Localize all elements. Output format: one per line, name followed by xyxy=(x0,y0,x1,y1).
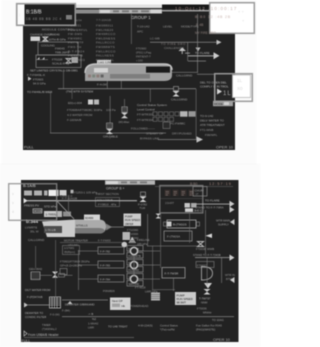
wire: faint top line P2 xyxy=(155,185,233,188)
panel P1 (upper DCS screenshot background) xyxy=(23,8,235,150)
red play arrow xyxy=(217,89,222,95)
right lower text block P1 xyxy=(200,114,225,127)
tile 2 (maroon) xyxy=(173,190,179,197)
svg-text:1L: 1L xyxy=(237,78,243,83)
junction diamond P2 right xyxy=(206,234,213,239)
down arrow xyxy=(196,48,201,52)
white value box xyxy=(31,37,41,42)
left rows with arrow xyxy=(28,77,32,81)
overlay box E (annotation with red tiles) xyxy=(160,186,203,213)
panel P1 top-right extension (dark strip behind clock) xyxy=(162,5,235,9)
small grey icon box xyxy=(72,57,79,63)
dark diamond xyxy=(204,283,212,289)
left stack of outlined boxes P2 xyxy=(127,246,143,287)
wire: vertical x=63 P1 xyxy=(62,71,65,89)
hatch box icon xyxy=(31,272,40,280)
button row P2 top-left xyxy=(24,191,32,196)
valve V6 red butterfly xyxy=(204,289,211,295)
wire: vertical x=72 P1 xyxy=(71,89,74,99)
bottom right cluster P1 xyxy=(131,127,218,141)
PUMP B bright boxes xyxy=(123,232,131,240)
wire: second line below TO FLARE xyxy=(188,60,206,63)
box C faint glyphs xyxy=(237,78,243,91)
right mid white text block xyxy=(200,81,229,89)
dark icon box xyxy=(163,122,170,129)
grey button under box C xyxy=(213,101,233,106)
menu bar P1 xyxy=(76,10,99,14)
hatch icon box xyxy=(151,293,160,301)
F-T-7W3R box xyxy=(162,268,185,279)
PUMP RUN SPEED white box 2 xyxy=(175,292,196,305)
faceplate inner dark display xyxy=(146,67,170,73)
wire: vertical under 7W3R box xyxy=(172,278,175,291)
outlined box 2 under box E xyxy=(164,231,192,241)
wire: main horizontal line P2 xyxy=(27,200,137,201)
valve (white butterfly, center line) xyxy=(106,129,113,134)
wire: vertical line x=197 P1 xyxy=(196,14,199,73)
wire: vertical line x=50 P1 xyxy=(49,92,52,133)
valve V1 (red butterfly) xyxy=(43,37,48,41)
overlay box D (left callout P2) xyxy=(9,184,57,221)
red tick xyxy=(71,190,74,194)
wire: mid horizontal line P1 xyxy=(58,87,196,90)
check valve D-shape xyxy=(202,267,213,281)
bottom right text block xyxy=(138,311,224,332)
wire: bottom horizontal line P1 xyxy=(50,132,166,135)
wire: vertical line x=187 P1 xyxy=(186,42,189,61)
overlay box A (grey bordered callout, top-left) xyxy=(18,5,75,25)
wire: long horizontal line under header P1 (arrow) xyxy=(150,41,217,44)
block outline FOLLOW-B xyxy=(96,198,120,207)
LED grey xyxy=(101,75,104,78)
wire: into box C xyxy=(197,73,215,76)
texts left-center P2 xyxy=(63,246,80,255)
wire: pill drop lines xyxy=(106,81,109,89)
svg-text:x: x xyxy=(12,201,14,205)
svg-text:4: 4 xyxy=(12,210,14,214)
wire: loop vertical x=152.5 xyxy=(151,246,154,290)
faceplate label (LAG) xyxy=(97,60,111,64)
wire: small arrow line bottom right xyxy=(158,138,197,141)
wire: long bottom horizontal line P2 xyxy=(62,315,234,318)
wire vertical x=221 xyxy=(220,258,223,283)
valve V4 (red butterfly P2) xyxy=(141,192,146,196)
wire: diagonal into vessel xyxy=(57,201,74,219)
box E inner line xyxy=(161,197,203,200)
svg-text:PRESS PV: PRESS PV xyxy=(24,204,39,208)
arrow head main line xyxy=(24,198,28,203)
tile 3 (maroon) xyxy=(181,190,187,197)
wire: vertical line x=131 P1 xyxy=(130,14,133,44)
wires vertical left P2 xyxy=(34,246,37,268)
1-TR55A light box xyxy=(44,211,62,217)
texts below xyxy=(127,228,139,240)
wire: vertical line x=110 P1 xyxy=(109,96,112,123)
outlined box under box E xyxy=(167,220,196,228)
indicator red cross xyxy=(179,48,187,52)
arrow into filter xyxy=(24,303,28,308)
box B faint glyphs xyxy=(238,9,245,23)
menu bar extension line P1 xyxy=(162,10,209,11)
vessel (light grey tank) xyxy=(42,220,75,238)
wire: horizontal line y=242 P2 xyxy=(60,241,122,244)
wire set center P2 xyxy=(146,214,149,246)
block outline B1 (cooling box) xyxy=(38,42,78,55)
valve V5 red butterfly xyxy=(52,272,58,278)
texts right of pill xyxy=(136,47,152,63)
wire: vertical x=205 P2 xyxy=(204,210,207,254)
menu bar P2 xyxy=(105,181,155,185)
LED green xyxy=(92,75,95,78)
tile 4 (maroon) xyxy=(189,190,195,197)
overlay box C (right-middle callout) xyxy=(215,74,253,102)
bright highlighted cell xyxy=(49,190,59,196)
wire: vertical to vessel xyxy=(67,196,70,215)
wire: vertical x=196 P1 xyxy=(195,89,198,139)
valve (white butterfly top right P2) xyxy=(198,242,204,247)
svg-text:X0: X0 xyxy=(237,86,243,91)
wire: hatch to valve line xyxy=(40,274,52,277)
svg-text:MODE: MODE xyxy=(34,209,42,213)
valve (white butterfly near box E) xyxy=(156,214,162,219)
LED red xyxy=(88,75,91,78)
svg-text:B:1B/B: B:1B/B xyxy=(26,10,42,16)
wire: vertical between pumps xyxy=(133,255,136,276)
wire vertical right low xyxy=(206,258,209,285)
panel P2 (lower DCS screenshot background) xyxy=(21,180,239,342)
top-right small outlined box P2 xyxy=(193,187,207,197)
wire: loop horizontal y=289.5 xyxy=(152,288,175,291)
red indicator circle xyxy=(122,242,128,248)
block outline B2 (scaler box) xyxy=(36,55,81,68)
faceplate pill P1 xyxy=(85,64,172,81)
arrow row right xyxy=(195,256,230,259)
tile 1 (maroon) xyxy=(165,190,171,197)
faceplate shading stripe xyxy=(110,74,150,79)
text column 2 P1 xyxy=(96,24,116,62)
PUMP RUN SPEED box (white) xyxy=(124,214,142,227)
box D faint glyphs xyxy=(12,192,14,214)
vessel dark inset xyxy=(44,226,62,233)
wire: vessel tail to pump box xyxy=(106,226,124,229)
hatch box icon on line xyxy=(107,123,113,128)
bottom right cluster P2 xyxy=(196,247,214,268)
pump circles column xyxy=(98,247,124,254)
SELECT OP white button xyxy=(110,298,131,311)
MODE box xyxy=(33,209,42,213)
box C inner white panel xyxy=(233,75,251,98)
valve V3 (red butterfly, right-center) xyxy=(174,87,179,91)
svg-text:1B 4B 8B BB 2C 4: 1B 4B 8B BB 2C 4 xyxy=(26,17,62,21)
svg-text:STD kPa: STD kPa xyxy=(44,205,56,209)
faceplate white cell xyxy=(94,68,108,73)
wires left-center P2 xyxy=(77,250,80,290)
svg-text:x: x xyxy=(12,192,14,196)
From U98A/B Heater row xyxy=(24,331,27,336)
valve (white butterfly) xyxy=(66,59,71,64)
hazard hatch triangle xyxy=(129,237,137,243)
bright cells bottom of box E xyxy=(185,208,193,212)
vessel label white box xyxy=(84,215,100,221)
icon row (small triangles) xyxy=(37,57,40,60)
second branch: hatch box + white butterfly xyxy=(122,107,128,112)
wire: from pill right end xyxy=(172,71,197,74)
svg-text:+ +: + + xyxy=(238,9,244,14)
wire: vertical link valve xyxy=(109,134,112,139)
global dim overlay P1 (JPEG mute, avoids callout boxes) xyxy=(75,5,209,26)
big hatch filter icon xyxy=(50,297,61,308)
svg-text:12 :4B 2B: 12 :4B 2B xyxy=(208,15,231,19)
svg-text:1-TR55A: 1-TR55A xyxy=(46,213,58,217)
svg-text::: : xyxy=(19,12,20,17)
global dim overlay P2 (avoids box D) xyxy=(21,180,239,184)
wire: vertical x=150 P1 xyxy=(149,89,152,102)
overlay box B (white callout, top-right) drawn under clock text xyxy=(210,3,255,34)
texts top-middle P2 xyxy=(62,191,119,207)
text column 1 P1 xyxy=(68,24,88,62)
junction cross marks xyxy=(185,52,190,55)
LED red 2 xyxy=(96,75,99,78)
